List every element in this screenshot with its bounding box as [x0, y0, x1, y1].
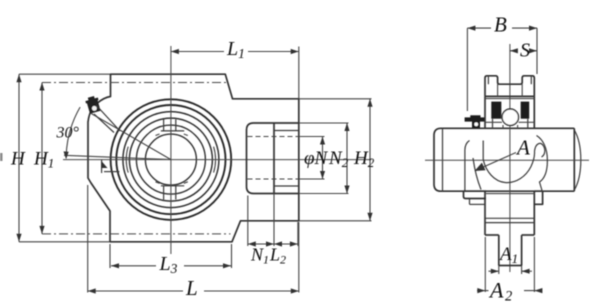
svg-text:A: A — [515, 136, 530, 160]
set screw detail top — [161, 130, 184, 132]
dimension A1 line — [489, 270, 499, 272]
guide block inner line bottom — [274, 185, 299, 187]
dimension S line — [510, 50, 516, 52]
column sides lower — [484, 191, 486, 235]
dimension H2 line — [369, 99, 371, 221]
base bottom edges — [485, 234, 499, 236]
svg-text:φN: φN — [304, 148, 329, 169]
boss edge right — [537, 136, 548, 191]
svg-text:30°: 30° — [56, 125, 80, 142]
dimension N1 L2 line — [248, 243, 298, 245]
svg-text:L: L — [185, 276, 198, 300]
guide block bottom edge — [274, 193, 299, 195]
30deg axis line — [91, 113, 171, 159]
phantom rail line bottom — [42, 233, 231, 235]
H extension top — [19, 73, 110, 75]
svg-text:S: S — [520, 40, 530, 62]
H2 extension bottom — [299, 220, 372, 222]
svg-text:H: H — [10, 149, 26, 170]
H2 extension top — [299, 98, 372, 100]
bearing ball — [502, 109, 518, 125]
label A leader — [476, 153, 517, 171]
inner ring shoulder arc left — [126, 147, 128, 173]
N1 L2 extension left — [247, 196, 249, 247]
side view vertical centerline — [509, 44, 511, 272]
guide block inner line top — [274, 130, 299, 132]
cap inner vertical right — [530, 76, 532, 84]
shaft end face — [573, 128, 575, 191]
horizontal centerline — [63, 159, 372, 161]
inner ring sides — [492, 119, 494, 129]
bearing circle r60 — [111, 99, 232, 220]
shaft — [434, 128, 574, 191]
dimension A2 line — [477, 290, 489, 292]
dimension L1 line — [171, 51, 224, 53]
dimension L3 line — [111, 265, 156, 267]
dimension L line — [88, 290, 183, 292]
guide block top edge — [274, 122, 299, 124]
cap bottom line — [485, 95, 534, 97]
top cap crown — [485, 76, 534, 97]
shallow ray — [64, 155, 171, 159]
shaft end ellipse — [574, 130, 581, 190]
tongue — [498, 235, 500, 266]
phiN extension top — [299, 136, 325, 138]
dimension H line — [18, 74, 20, 242]
shaft left end inner edge — [442, 128, 444, 191]
L extension left — [87, 185, 89, 293]
grease fitting front — [85, 95, 102, 114]
L3 extension left — [109, 244, 111, 268]
slot hidden line top — [248, 136, 299, 138]
grease fitting side — [470, 115, 480, 117]
bearing circle r48 — [123, 112, 219, 208]
bearing bottom section right tab — [534, 191, 542, 204]
boss edge left — [465, 141, 470, 191]
dimension H1 line — [41, 83, 43, 234]
set screw detail bottom — [161, 185, 184, 187]
bearing circle r25 (bore) — [145, 134, 196, 185]
rib steep strand — [473, 158, 481, 190]
A2 extension right — [533, 237, 535, 292]
scan speck left edge — [0, 153, 3, 161]
housing outline — [88, 74, 299, 242]
shaft centerline — [425, 159, 589, 161]
plate right edge — [273, 123, 275, 194]
L3 extension right — [231, 244, 233, 268]
inner ring shoulder arc right — [214, 147, 216, 173]
small mark near center-left — [101, 160, 103, 173]
B extension right — [536, 28, 538, 74]
notch wall extensions — [497, 84, 499, 96]
bearing section top line — [485, 98, 534, 100]
bearing seal block left — [491, 102, 501, 119]
A2 extension left — [484, 237, 486, 292]
N2 extension bottom — [299, 193, 349, 195]
N1 L2 extension middle — [273, 194, 275, 247]
B extension left — [466, 28, 468, 111]
grease passage line 2 — [94, 114, 114, 133]
slot plate (rounded) — [247, 123, 275, 194]
N2 extension top — [299, 122, 349, 124]
N1 L2 extension right — [297, 222, 299, 246]
base internal lines — [485, 217, 534, 219]
column sides upper — [484, 96, 486, 129]
rib vertical edge — [482, 141, 484, 160]
dimension B line — [467, 27, 491, 29]
L1 right extension — [298, 47, 300, 99]
grease passage line 1 — [96, 105, 120, 131]
dimension N2 line — [346, 123, 348, 194]
phantom rail line top — [42, 82, 227, 84]
30deg arc arrowhead — [64, 151, 69, 159]
slot hidden line bottom — [248, 178, 299, 180]
vertical centerline — [170, 46, 172, 254]
rib swoosh curve — [483, 151, 534, 183]
bottom section line under shaft — [486, 193, 534, 195]
bearing bottom section left tab — [464, 191, 487, 198]
bearing circle r34 — [136, 125, 205, 194]
30deg dimension arc — [66, 107, 80, 157]
bearing circle r41 — [129, 118, 212, 201]
H extension bottom — [19, 241, 110, 243]
bearing seal block right — [521, 102, 530, 119]
svg-text:B: B — [494, 13, 507, 37]
dimension phiN line — [322, 137, 324, 180]
L extension right — [298, 222, 300, 293]
bearing circle r55 — [116, 105, 225, 214]
cap inner vertical left — [487, 76, 489, 84]
rib hook — [535, 143, 545, 157]
phiN extension bottom — [299, 178, 325, 180]
